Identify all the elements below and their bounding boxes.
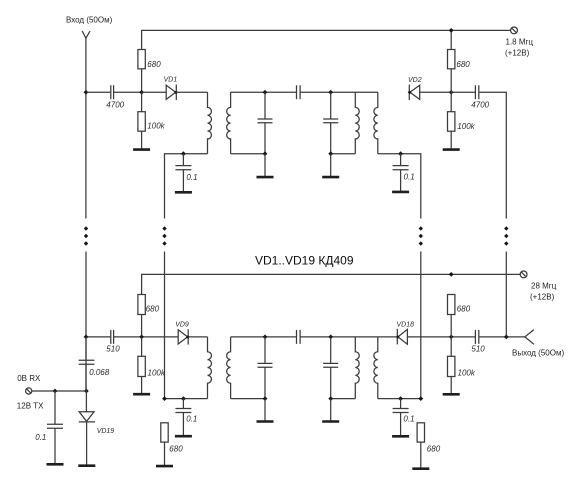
capacitor C 4700 (top right) bbox=[471, 85, 489, 109]
node tank2 top bbox=[328, 90, 333, 95]
ground under 100k bottom left bbox=[133, 393, 150, 396]
wire coupling to tank2 bbox=[300, 91, 377, 93]
capacitor 0.1 (top left) bbox=[175, 154, 197, 192]
svg-text:680: 680 bbox=[456, 60, 470, 69]
diode VD2 bbox=[408, 77, 422, 100]
svg-text:VD2: VD2 bbox=[408, 77, 422, 84]
coil L2 (top transformer secondary) bbox=[227, 92, 231, 153]
svg-text:(+12В): (+12В) bbox=[530, 293, 555, 302]
ground under 100k bottom right bbox=[443, 393, 460, 396]
node tank1b bottom bbox=[263, 396, 268, 401]
wire to 4700 bbox=[86, 91, 110, 93]
wire input column top bbox=[85, 38, 87, 218]
svg-text:28 Мгц: 28 Мгц bbox=[531, 282, 557, 291]
node tank2b top bbox=[328, 335, 333, 340]
wire left inner column bottom bbox=[164, 252, 166, 399]
ground under 0.1 bottom right bbox=[392, 435, 409, 438]
node right column / L4b bbox=[418, 396, 423, 401]
ground under 0.1 top left bbox=[175, 191, 192, 194]
coil L4 (top right transformer) bbox=[374, 92, 378, 153]
ground under 680 right column bbox=[412, 467, 429, 470]
svg-text:VD1: VD1 bbox=[164, 77, 178, 84]
svg-text:0.1: 0.1 bbox=[403, 415, 414, 424]
svg-text:100k: 100k bbox=[457, 122, 475, 131]
diode VD9 bbox=[175, 321, 190, 344]
wire right outer column bottom bbox=[505, 252, 507, 337]
svg-text:680: 680 bbox=[146, 305, 160, 314]
input terminal Вход (50Ом) bbox=[66, 16, 113, 39]
node bus bottom right bbox=[449, 272, 454, 277]
wire bottom bus bbox=[142, 274, 521, 294]
node tank1 bottom bbox=[263, 151, 268, 156]
node tank1 top bbox=[263, 90, 268, 95]
coil L3b (tank2b) bbox=[355, 337, 359, 399]
resistor 680 (left column to ground) bbox=[161, 423, 183, 466]
wire L4 bottom to right column bbox=[378, 154, 421, 219]
wire VD2 to node B bbox=[420, 91, 452, 93]
ground under tank2b bbox=[322, 420, 339, 423]
resistor 680 (top left) bbox=[138, 50, 161, 93]
capacitor 0.1 (bottom left) bbox=[175, 399, 197, 436]
svg-text:680: 680 bbox=[169, 445, 183, 454]
capacitor coupling (bottom) bbox=[297, 330, 301, 344]
wire L4b top to VD18 bbox=[378, 336, 398, 338]
svg-text:1.8 Мгц: 1.8 Мгц bbox=[506, 37, 534, 46]
wire VD9 to coil L1b bbox=[188, 336, 207, 338]
svg-text:0.1: 0.1 bbox=[186, 415, 197, 424]
svg-text:100k: 100k bbox=[147, 122, 165, 131]
capacitor coupling (top) bbox=[297, 85, 301, 99]
ground under tank2 bbox=[322, 176, 339, 179]
node tank2 bottom bbox=[328, 151, 333, 156]
terminal 1.8 МГц (+12В) bbox=[505, 27, 533, 57]
ground under 0.1 top right bbox=[392, 191, 409, 194]
ground under 0.1 bottom left bbox=[175, 435, 192, 438]
wire L4b bottom to right column junction bbox=[378, 398, 421, 400]
node bus top right bbox=[449, 28, 454, 33]
resistor 100k (top left) bbox=[138, 92, 166, 149]
diode VD19 bbox=[79, 391, 115, 435]
dots column right outer bbox=[504, 226, 508, 245]
resistor 100k (top right) bbox=[448, 92, 476, 149]
svg-text:0.1: 0.1 bbox=[186, 173, 197, 182]
node tank1b top bbox=[263, 335, 268, 340]
wire tank2b to ground bbox=[330, 399, 332, 422]
resistor 680 (top right) bbox=[448, 30, 471, 92]
wire input column to 0.068 bbox=[85, 337, 87, 360]
ground under 680 left column bbox=[156, 465, 173, 468]
svg-text:VD1..VD19 КД409: VD1..VD19 КД409 bbox=[255, 253, 354, 267]
node 0.1 top right bbox=[398, 151, 403, 156]
ground under 0.1 RX bbox=[47, 463, 64, 466]
ground under tank1b bbox=[257, 420, 274, 423]
wire 0.068 to terminal wire bbox=[85, 365, 87, 392]
wire tank1b bottom bbox=[231, 398, 265, 400]
capacitor 0.1 (RX line) bbox=[35, 391, 63, 464]
svg-text:4700: 4700 bbox=[471, 101, 489, 110]
svg-text:100k: 100k bbox=[148, 368, 166, 377]
wire node B to 4700 right bbox=[451, 91, 475, 93]
ground under VD19 bbox=[78, 464, 95, 467]
wire 4700 to node A bbox=[114, 91, 142, 93]
svg-text:0.1: 0.1 bbox=[35, 433, 46, 442]
wire L1b bottom to left column junction bbox=[165, 398, 208, 400]
capacitor tank1 bbox=[258, 92, 273, 153]
wire tank1 bottom bbox=[231, 153, 265, 155]
resistor 100k (bottom left) bbox=[138, 337, 166, 394]
svg-text:Вход (50Ом): Вход (50Ом) bbox=[66, 16, 113, 25]
terminal 0В RX / 12В TX bbox=[17, 374, 44, 410]
wire tank2 to ground bbox=[330, 154, 332, 177]
node tank2b bottom bbox=[328, 396, 333, 401]
diode VD1 bbox=[164, 77, 178, 100]
svg-text:680: 680 bbox=[147, 60, 161, 69]
dots column left inner bbox=[162, 226, 166, 245]
wire top bus bbox=[142, 30, 511, 49]
wire tank1b to ground bbox=[264, 399, 266, 422]
dots column right inner bbox=[419, 226, 423, 245]
resistor 680 (bottom left) bbox=[138, 295, 160, 337]
capacitor tank2b bbox=[323, 337, 338, 399]
wire VD18 to node D bbox=[407, 336, 475, 338]
svg-text:(+12В): (+12В) bbox=[505, 48, 530, 57]
wire tank1 top bbox=[231, 91, 297, 93]
wire terminal to VD19 column bbox=[32, 390, 87, 392]
svg-text:680: 680 bbox=[457, 305, 471, 314]
capacitor 0.1 (bottom right) bbox=[393, 399, 415, 436]
coil L4b (bottom right transformer) bbox=[374, 337, 378, 399]
coil L1b (bottom transformer primary) bbox=[208, 337, 212, 399]
wire input to 510 left bbox=[86, 336, 110, 338]
svg-text:100k: 100k bbox=[458, 368, 476, 377]
capacitor tank1b bbox=[258, 337, 273, 399]
wire VD19 to ground bbox=[86, 422, 88, 466]
terminal 28 МГц (+12В) bbox=[520, 271, 557, 302]
node output column bbox=[504, 335, 509, 340]
capacitor C 510 (bottom right) bbox=[471, 330, 485, 354]
wire tank1b top bbox=[231, 336, 297, 338]
coil L3 (tank2) bbox=[355, 92, 359, 153]
wire coupling to tank2b bbox=[300, 336, 377, 338]
node VD19 top bbox=[84, 389, 89, 394]
wire 510 to node C bbox=[114, 336, 178, 338]
ground under 100k top right bbox=[443, 148, 460, 151]
wire 4700 to right column bbox=[479, 92, 506, 218]
capacitor tank2 bbox=[323, 92, 338, 153]
resistor 680 (right column to ground) bbox=[417, 423, 441, 469]
wire 510 to output bbox=[479, 336, 525, 338]
node B top bbox=[449, 90, 454, 95]
diode VD18 bbox=[396, 321, 414, 344]
wire tank2b bottom bbox=[331, 398, 356, 400]
ground under 100k top left bbox=[133, 148, 150, 151]
node input/510 junction bbox=[84, 335, 89, 340]
svg-text:0В RX: 0В RX bbox=[17, 374, 41, 383]
capacitor C 510 (bottom left) bbox=[106, 330, 120, 354]
node 0.1 RX bbox=[53, 389, 58, 394]
coil L2b (bottom transformer secondary) bbox=[227, 337, 231, 399]
svg-text:VD19: VD19 bbox=[97, 428, 115, 435]
resistor 100k (bottom right) bbox=[448, 337, 476, 394]
svg-text:VD18: VD18 bbox=[397, 321, 415, 328]
wire node A to VD1 bbox=[142, 91, 167, 93]
wire tank2 bottom bbox=[331, 153, 356, 155]
capacitor C 4700 (top left) bbox=[106, 85, 124, 109]
svg-text:VD9: VD9 bbox=[175, 321, 189, 328]
resistor 680 (bottom right) bbox=[448, 295, 471, 337]
svg-text:Выход (50Ом): Выход (50Ом) bbox=[512, 349, 564, 358]
node input/4700 junction bbox=[84, 90, 89, 95]
wire L1 bottom to left column bbox=[165, 154, 208, 219]
node 0.1 top left bbox=[181, 151, 186, 156]
node left column / L1b bbox=[162, 396, 167, 401]
node D bottom bbox=[449, 335, 454, 340]
capacitor 0.068 bbox=[79, 360, 110, 377]
node 0.1 bottom left bbox=[181, 396, 186, 401]
svg-text:0.1: 0.1 bbox=[404, 172, 415, 181]
wire tank1 to ground bbox=[264, 154, 266, 177]
svg-text:4700: 4700 bbox=[106, 101, 124, 110]
dots column input bbox=[84, 226, 88, 245]
wire input column bottom bbox=[85, 252, 87, 392]
coil L1 (top transformer primary) bbox=[208, 92, 212, 153]
svg-text:0.068: 0.068 bbox=[89, 368, 110, 377]
svg-text:12В TX: 12В TX bbox=[17, 401, 44, 410]
wire right inner column bottom bbox=[420, 252, 422, 399]
svg-text:680: 680 bbox=[427, 445, 441, 454]
svg-text:510: 510 bbox=[471, 345, 485, 354]
wire VD1 to coil L1 bbox=[176, 91, 207, 93]
svg-text:510: 510 bbox=[106, 345, 120, 354]
ground under tank1 bbox=[257, 176, 274, 179]
node 0.1 bottom right bbox=[398, 396, 403, 401]
capacitor 0.1 (top right) bbox=[393, 154, 415, 192]
output terminal Выход (50Ом) bbox=[512, 330, 564, 358]
node C bottom bbox=[139, 335, 144, 340]
node A top bbox=[139, 90, 144, 95]
